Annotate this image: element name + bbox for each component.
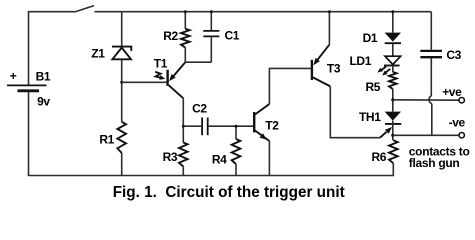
thyristor TH1 (359, 110, 401, 140)
resistor R2 (163, 12, 189, 63)
resistor R1 (99, 122, 126, 153)
node: D1 branch on top rail (391, 10, 394, 13)
svg-text:R6: R6 (372, 150, 387, 164)
LED LD1 (350, 43, 401, 75)
wire: Z1 anode down through junction to R1 (121, 59, 123, 122)
svg-text:TH1: TH1 (359, 110, 381, 124)
capacitor C3 (420, 12, 461, 96)
battery B1 (7, 69, 51, 108)
wire: +ve output wire (393, 99, 459, 101)
svg-text:Z1: Z1 (91, 47, 105, 61)
node: T3 emitter on top rail (328, 10, 331, 13)
wire: left rail lower (28, 92, 30, 176)
transistor T3 (PNP) (312, 45, 341, 87)
switch S1 blade (75, 6, 94, 12)
wire: T3 collector down and right to TH1 gate (330, 86, 380, 137)
wire: T1 collector down to C2 junction and R3 (182, 98, 184, 142)
svg-text:T3: T3 (327, 62, 341, 76)
resistor R5 (366, 66, 397, 112)
wire: top rail left segment and left rail upper (29, 12, 76, 85)
capacitor C2 (183, 101, 253, 135)
wire: base of T1 (122, 81, 167, 83)
diode D1 (363, 12, 401, 46)
transistor T2 (NPN) (254, 104, 279, 141)
svg-text:+ve: +ve (442, 85, 462, 99)
terminal: +ve circle (459, 98, 464, 103)
wire: TH1 gate diagonal with arrow (380, 132, 387, 138)
svg-text:D1: D1 (363, 31, 378, 45)
node: -ve junction (391, 134, 394, 137)
node: R4 top junction (235, 125, 238, 128)
svg-text:Fig. 1. Circuit of the trigge: Fig. 1. Circuit of the trigger unit (113, 184, 345, 201)
resistor R6 (372, 140, 398, 175)
node: Z1/R1/base junction (120, 81, 123, 84)
terminal: -ve circle (459, 133, 464, 138)
resistor R4 (212, 126, 240, 175)
wire: top rail right segment (95, 11, 432, 13)
svg-text:B1: B1 (36, 69, 51, 83)
zener diode Z1 (91, 12, 131, 61)
svg-text:T1: T1 (154, 57, 168, 71)
svg-text:C2: C2 (192, 101, 207, 115)
svg-text:C1: C1 (225, 29, 240, 43)
wire: -ve output wire (393, 134, 459, 136)
node: R2 branch on top rail (184, 10, 187, 13)
svg-text:C3: C3 (446, 48, 461, 62)
wire: bottom rail (28, 175, 394, 177)
wire: C3 lead hop over +ve wire (429, 96, 432, 104)
wire: T2 emitter to bottom rail (268, 141, 270, 176)
svg-text:-ve: -ve (449, 116, 466, 130)
svg-text:+: + (10, 69, 17, 83)
transistor T1 (PNP, light sensor) (154, 57, 186, 99)
wire: T3 emitter to top rail (328, 12, 330, 45)
node: C1 branch on top rail (210, 10, 213, 13)
wire: R2 bottom to C1 bottom connector (185, 61, 211, 63)
node: C2/R3 junction (182, 125, 185, 128)
wire: C3 lower lead to -ve wire (431, 104, 433, 136)
svg-text:9v: 9v (37, 94, 50, 108)
wire: T2 collector up and right to T3 base (269, 68, 311, 104)
wire: R1 to bottom rail (121, 153, 123, 176)
svg-text:flash gun: flash gun (409, 156, 460, 170)
svg-text:R3: R3 (163, 150, 178, 164)
resistor R3 (163, 143, 188, 167)
node: +ve junction (391, 98, 394, 101)
capacitor C1 (203, 12, 239, 63)
wire: R3 to bottom rail (182, 167, 184, 176)
svg-text:R1: R1 (99, 132, 114, 146)
svg-text:R4: R4 (212, 152, 227, 166)
svg-text:R2: R2 (163, 29, 178, 43)
svg-text:T2: T2 (265, 118, 279, 132)
svg-text:R5: R5 (366, 80, 381, 94)
svg-text:LD1: LD1 (350, 54, 372, 68)
